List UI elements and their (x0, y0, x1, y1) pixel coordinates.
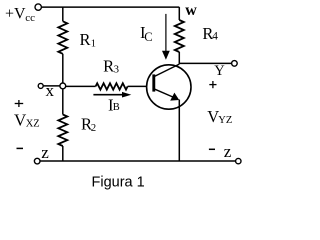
wire node x to R2 (62, 89, 64, 115)
svg-text:x: x (46, 81, 55, 100)
svg-text:R: R (80, 30, 91, 49)
wire bottom rail (40, 160, 236, 162)
wire R2 to bottom rail (62, 146, 64, 161)
wire R4 to collector node (178, 52, 180, 64)
svg-text:B: B (113, 102, 120, 113)
transistor Q1 emitter line (155, 89, 174, 97)
wire left rail top (62, 7, 64, 21)
terminal Y (232, 61, 238, 67)
terminal z right (236, 158, 241, 163)
label VXZ minus sign (17, 147, 24, 149)
wire emitter down to bottom rail (178, 100, 180, 162)
wire node x to R3 (66, 85, 96, 87)
svg-text:w: w (185, 2, 197, 19)
terminal z left (34, 158, 40, 164)
resistor R1 (58, 21, 67, 54)
svg-text:1: 1 (91, 38, 96, 49)
svg-text:+V: +V (5, 6, 26, 23)
node x (60, 83, 66, 89)
svg-text:C: C (144, 30, 152, 44)
resistor R2 (58, 115, 67, 147)
svg-text:cc: cc (25, 12, 35, 24)
label VYZ minus sign (209, 148, 215, 150)
current arrow IC (165, 14, 167, 52)
svg-text:Figura 1: Figura 1 (92, 175, 145, 191)
wire terminal x to node x (43, 85, 60, 87)
svg-text:XZ: XZ (26, 119, 40, 130)
resistor R3 (96, 83, 128, 89)
wire collector lead from top rail (178, 7, 180, 20)
transistor Q1 emitter arrowhead (170, 93, 179, 101)
svg-text:Y: Y (214, 63, 225, 79)
label VXZ plus sign (15, 100, 24, 107)
current arrow IB (93, 94, 123, 96)
wire collector node to terminal Y (179, 62, 231, 64)
wire top rail (42, 6, 180, 8)
terminal Vcc (35, 4, 41, 10)
wire R3 to base (128, 85, 147, 87)
svg-text:R: R (103, 57, 114, 76)
transistor Q1 body (147, 65, 191, 109)
terminal x (38, 83, 43, 88)
label VYZ plus sign (209, 81, 216, 88)
resistor R4 (175, 20, 184, 52)
svg-text:2: 2 (91, 123, 96, 134)
svg-text:z: z (41, 143, 49, 162)
svg-text:4: 4 (212, 30, 218, 42)
transistor Q1 base bar (152, 74, 155, 91)
transistor Q1 collector line (155, 64, 180, 76)
svg-text:3: 3 (114, 65, 119, 76)
svg-text:z: z (224, 142, 232, 161)
wire R1 to node x (62, 54, 64, 83)
svg-text:YZ: YZ (218, 115, 232, 126)
